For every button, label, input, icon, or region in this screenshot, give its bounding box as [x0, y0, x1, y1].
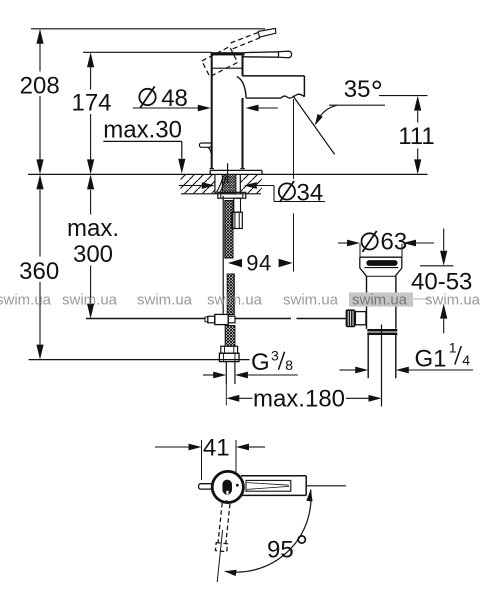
svg-text:swim.ua: swim.ua — [283, 292, 339, 309]
svg-text:3: 3 — [271, 348, 279, 364]
svg-text:360: 360 — [19, 258, 59, 285]
svg-text:94: 94 — [246, 251, 271, 276]
svg-text:1: 1 — [449, 339, 457, 355]
svg-text:swim.ua: swim.ua — [425, 292, 481, 309]
svg-text:swim.ua: swim.ua — [0, 292, 52, 309]
svg-text:34: 34 — [297, 180, 324, 207]
svg-text:max.180: max.180 — [253, 385, 345, 412]
svg-text:35: 35 — [344, 76, 371, 103]
svg-text:174: 174 — [71, 90, 111, 117]
svg-text:swim.ua: swim.ua — [207, 292, 263, 309]
svg-text:swim.ua: swim.ua — [62, 292, 118, 309]
svg-text:4: 4 — [462, 352, 470, 368]
svg-text:8: 8 — [285, 357, 293, 373]
svg-text:111: 111 — [398, 123, 434, 150]
svg-text:swim.ua: swim.ua — [352, 292, 408, 309]
svg-text:max.30: max.30 — [103, 117, 182, 144]
svg-text:swim.ua: swim.ua — [137, 292, 193, 309]
svg-text:G: G — [251, 349, 270, 376]
svg-text:63: 63 — [381, 229, 408, 256]
svg-text:95: 95 — [267, 537, 294, 564]
svg-text:300: 300 — [73, 241, 113, 268]
svg-text:41: 41 — [203, 435, 230, 462]
svg-text:208: 208 — [20, 72, 60, 99]
svg-text:G1: G1 — [415, 346, 447, 373]
svg-text:max.: max. — [67, 215, 119, 242]
